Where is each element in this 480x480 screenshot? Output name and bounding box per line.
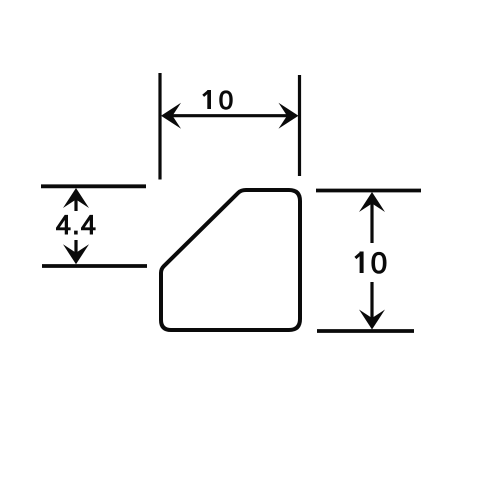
svg-text:4.4: 4.4: [56, 210, 97, 240]
down arrow (height dim): [370, 282, 373, 326]
svg-text:0: 0: [219, 85, 233, 115]
chamfered square body: [161, 190, 300, 330]
extension line right (top width dim): [298, 75, 301, 176]
extension line left (top width dim): [158, 73, 161, 180]
arrowhead right: [279, 103, 299, 129]
up arrow (height dim): [370, 196, 373, 243]
dimension line (top width dim): [164, 114, 296, 117]
arrowhead left: [161, 103, 181, 129]
chamfer top boundary line: [41, 184, 146, 188]
height bottom boundary line: [317, 329, 414, 333]
chamfer bottom boundary line: [42, 264, 147, 268]
down arrow (4.4 dim): [74, 240, 77, 261]
label 10 (top width): digit 1 drawn as path (no-foot helvetica style): [207, 90, 211, 109]
label 10 (height): digit 1 drawn as path: [360, 252, 364, 274]
height top boundary line: [316, 189, 421, 193]
svg-text:0: 0: [371, 247, 387, 280]
up arrow (4.4 dim): [74, 192, 77, 211]
